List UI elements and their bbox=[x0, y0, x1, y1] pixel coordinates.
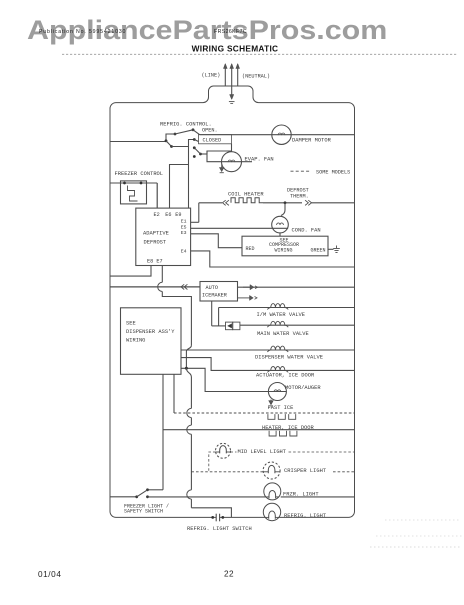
svg-text:RED: RED bbox=[246, 246, 255, 252]
svg-text:E5: E5 bbox=[181, 224, 187, 230]
svg-text:WIRING: WIRING bbox=[126, 337, 145, 343]
svg-text:ACTUATOR, ICE DOOR: ACTUATOR, ICE DOOR bbox=[256, 373, 315, 379]
svg-text:DISPENSER WATER VALVE: DISPENSER WATER VALVE bbox=[255, 355, 323, 361]
svg-text:22: 22 bbox=[224, 570, 234, 579]
svg-text:EVAP. FAN: EVAP. FAN bbox=[245, 157, 274, 163]
svg-text:OPEN.: OPEN. bbox=[202, 128, 218, 134]
svg-text:01/04: 01/04 bbox=[38, 570, 62, 579]
svg-text:THERM.: THERM. bbox=[290, 193, 309, 199]
svg-text:CRISPER LIGHT: CRISPER LIGHT bbox=[284, 468, 327, 474]
svg-text:GREEN: GREEN bbox=[311, 247, 326, 253]
svg-text:E9: E9 bbox=[175, 212, 181, 218]
svg-text:E1: E1 bbox=[181, 219, 187, 225]
svg-text:CLOSED: CLOSED bbox=[203, 138, 222, 144]
svg-text:COIL HEATER: COIL HEATER bbox=[228, 191, 264, 197]
svg-text:E2: E2 bbox=[154, 212, 160, 218]
svg-text:REFRIG. LIGHT SWITCH: REFRIG. LIGHT SWITCH bbox=[187, 526, 252, 532]
svg-text:WIRING SCHEMATIC: WIRING SCHEMATIC bbox=[192, 44, 279, 54]
svg-text:MID LEVEL LIGHT: MID LEVEL LIGHT bbox=[238, 449, 287, 455]
svg-text:SAFETY SWITCH: SAFETY SWITCH bbox=[124, 509, 163, 515]
svg-text:FRZR. LIGHT: FRZR. LIGHT bbox=[283, 491, 319, 497]
svg-text:Publication No. 5995421030: Publication No. 5995421030 bbox=[39, 29, 126, 35]
svg-text:E4: E4 bbox=[181, 248, 187, 254]
svg-text:REFRIG. LIGHT: REFRIG. LIGHT bbox=[284, 513, 327, 519]
svg-text:MOTOR/AUGER: MOTOR/AUGER bbox=[285, 385, 321, 391]
svg-text:E8 E7: E8 E7 bbox=[147, 259, 163, 265]
svg-text:REFRIG. CONTROL.: REFRIG. CONTROL. bbox=[160, 121, 212, 127]
svg-text:FRS26KF7C: FRS26KF7C bbox=[214, 29, 247, 35]
svg-text:FAST ICE: FAST ICE bbox=[268, 405, 294, 411]
svg-text:(LINE): (LINE) bbox=[202, 73, 221, 79]
svg-text:(NEUTRAL): (NEUTRAL) bbox=[242, 74, 270, 80]
svg-text:DEFROST: DEFROST bbox=[144, 240, 167, 246]
svg-text:SEE: SEE bbox=[126, 321, 136, 327]
svg-text:I/M WATER VALVE: I/M WATER VALVE bbox=[257, 312, 306, 318]
svg-text:COND. FAN: COND. FAN bbox=[292, 227, 321, 233]
svg-text:HEATER, ICE DOOR: HEATER, ICE DOOR bbox=[262, 425, 315, 431]
svg-text:AUTO: AUTO bbox=[206, 285, 218, 291]
svg-text:E3: E3 bbox=[181, 230, 187, 236]
svg-text:SOME MODELS: SOME MODELS bbox=[316, 169, 350, 175]
svg-text:ADAPTIVE: ADAPTIVE bbox=[143, 231, 169, 237]
svg-text:FREEZER CONTROL: FREEZER CONTROL bbox=[115, 171, 164, 177]
svg-text:ICEMAKER: ICEMAKER bbox=[202, 292, 227, 298]
svg-text:E6: E6 bbox=[165, 212, 171, 218]
svg-text:DISPENSER ASS'Y: DISPENSER ASS'Y bbox=[126, 329, 175, 335]
svg-text:MAIN WATER VALVE: MAIN WATER VALVE bbox=[257, 331, 309, 337]
svg-text:DAMPER MOTOR: DAMPER MOTOR bbox=[292, 137, 332, 143]
svg-text:WIRING: WIRING bbox=[275, 248, 293, 254]
